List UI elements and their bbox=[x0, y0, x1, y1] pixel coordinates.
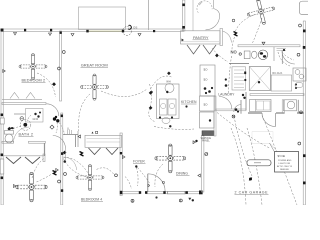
wall left outer bbox=[1, 29, 3, 205]
dining switch arc bbox=[155, 164, 163, 187]
great room east dashed curve bbox=[149, 84, 156, 122]
outlet bed3 bbox=[14, 185, 17, 188]
svg-text:PANEL: PANEL bbox=[202, 140, 210, 143]
corner post dining bbox=[199, 191, 203, 195]
wall foyer west stub bbox=[77, 131, 79, 147]
wall porch bump bbox=[79, 7, 126, 30]
svg-text:KITCHEN: KITCHEN bbox=[181, 100, 197, 104]
fan great room bbox=[81, 74, 109, 100]
closet bedroom4 bbox=[85, 135, 122, 147]
wall top outer bbox=[2, 29, 184, 31]
fan bedroom2 bbox=[19, 54, 47, 80]
window left wall b bbox=[0, 159, 4, 174]
tub bath2 bbox=[20, 117, 24, 121]
outlet right wall garage bbox=[298, 142, 301, 145]
triangle below OS bbox=[138, 34, 141, 37]
wall posts top bbox=[24, 29, 26, 32]
linen shelf hashes bbox=[68, 130, 72, 134]
bedroom3 door leaf bbox=[65, 149, 67, 161]
bedroom3 door arc bbox=[53, 136, 66, 149]
wall foyer west bbox=[120, 133, 122, 196]
fan bedroom3 bbox=[16, 172, 47, 201]
bath light dashed circle bbox=[20, 120, 31, 131]
wall kitchen thin partition bbox=[192, 0, 194, 31]
nook-kitchen dashed arcs right bbox=[282, 52, 294, 60]
upper cabinets dashes bbox=[277, 49, 287, 51]
svg-text:BEDROOM 2: BEDROOM 2 bbox=[22, 78, 46, 82]
garage ceiling outlet bbox=[249, 178, 252, 181]
mud switches bbox=[235, 108, 238, 111]
bedroom4 switch arcs bbox=[64, 157, 91, 176]
wall porch side line bbox=[148, 0, 150, 30]
svg-text:2 CAR GARAGE: 2 CAR GARAGE bbox=[235, 190, 269, 194]
WH circle bbox=[165, 84, 174, 93]
outlet triangle great room bbox=[78, 135, 81, 138]
switch arcs great room bbox=[79, 94, 90, 131]
lightning bedroom3 bbox=[53, 171, 57, 176]
closet line bedroom2 bbox=[2, 98, 42, 100]
outlet right top bbox=[299, 24, 302, 27]
lightning nook bbox=[234, 32, 238, 37]
toilet room bbox=[284, 100, 297, 111]
triangles below top wall bbox=[14, 33, 17, 36]
svg-text:$˧O⊕: $˧O⊕ bbox=[278, 154, 286, 158]
wall posts front wall bbox=[139, 191, 141, 194]
svg-text:OS: OS bbox=[133, 26, 137, 30]
bifold chevrons bedroom2 closet bbox=[10, 93, 35, 99]
wall posts left wall bbox=[1, 114, 4, 117]
svg-text:DINING: DINING bbox=[176, 172, 188, 176]
walk-in closet box bbox=[271, 75, 292, 91]
svg-text:W.I.CLO.: W.I.CLO. bbox=[272, 71, 283, 75]
wall masterbath north bbox=[229, 63, 249, 65]
sink rect bbox=[244, 51, 250, 59]
cooktop circle bbox=[258, 50, 268, 60]
note leader bbox=[270, 143, 275, 152]
foyer arcs bbox=[137, 168, 139, 187]
diamond above WH bbox=[167, 71, 171, 75]
master closets band bbox=[250, 100, 272, 112]
svg-text:GFCI: GFCI bbox=[33, 118, 39, 121]
note box attic bbox=[275, 152, 299, 173]
foyer glyphs top bbox=[162, 181, 164, 183]
svg-text:BATH 2: BATH 2 bbox=[19, 133, 34, 137]
dashed diag pantry-kitchen bbox=[212, 48, 228, 62]
laundry arc bbox=[151, 76, 172, 89]
fan bedroom4 bbox=[76, 165, 104, 191]
toilet master bbox=[295, 82, 303, 88]
svg-text:LIGHT FOR: LIGHT FOR bbox=[279, 163, 291, 165]
outlet foyer east triangle bbox=[123, 156, 126, 159]
wall post foyer wall bbox=[120, 152, 122, 154]
pantry2 shelves box bbox=[232, 67, 246, 90]
wall bedroom2 east bbox=[60, 31, 62, 101]
bifold chevrons bedroom4 closet bbox=[89, 148, 119, 155]
garage door opener capsule bbox=[247, 160, 271, 166]
svg-text:NEEDED: NEEDED bbox=[280, 169, 290, 171]
smoke detector circle top wall bbox=[123, 27, 132, 36]
wall kitchen north vertical bbox=[183, 0, 185, 31]
wall dining east / garage west bbox=[201, 136, 204, 193]
wall posts right wall bbox=[303, 30, 306, 33]
sink oval bbox=[251, 51, 257, 58]
svg-text:NO: NO bbox=[231, 50, 238, 55]
fan nook bbox=[244, 0, 278, 28]
outlet dining triangle bbox=[198, 174, 201, 177]
mud hall wall vertical bbox=[240, 100, 242, 114]
glyph D dining bbox=[205, 153, 208, 156]
bifold chevrons pantry bbox=[187, 45, 216, 54]
wall hall/bedrooms east bbox=[61, 113, 63, 205]
svg-text:POWER AND: POWER AND bbox=[278, 159, 292, 162]
nook fan arcs bbox=[236, 15, 256, 32]
diamond on arc bbox=[52, 82, 56, 86]
wall kitchen east bbox=[214, 96, 216, 136]
vanity master bbox=[293, 68, 306, 81]
wall bath2 south bbox=[2, 141, 14, 143]
fan dining bbox=[155, 144, 186, 173]
svg-text:GREAT ROOM: GREAT ROOM bbox=[81, 63, 108, 68]
svg-text:$O: $O bbox=[204, 68, 209, 72]
vent symbol bath2 bbox=[9, 127, 12, 130]
bedroom4 door arc bbox=[64, 157, 77, 170]
hall symbol bbox=[50, 125, 54, 129]
wall stub closet right bbox=[43, 154, 45, 162]
kitchen door arcs top bbox=[197, 1, 212, 13]
svg-text:FOYER: FOYER bbox=[133, 160, 145, 164]
master door leaf + arc bbox=[275, 113, 277, 127]
closet line bedroom3 bbox=[2, 155, 44, 157]
bedroom2 door arc bbox=[47, 104, 59, 116]
front door arc bbox=[148, 174, 165, 191]
switch arcs bedroom2 bbox=[37, 73, 56, 97]
laundry room bbox=[157, 84, 180, 119]
nook door arc bbox=[282, 51, 295, 65]
wall posts vertical B bbox=[182, 4, 185, 7]
hall switch cluster SO bbox=[53, 117, 56, 120]
symbols above closet bbox=[92, 132, 94, 134]
outlets hall wall bbox=[58, 180, 61, 183]
rounded corner top right bbox=[299, 1, 308, 14]
kitchen dashed horizontal bbox=[154, 127, 194, 130]
svg-text:$O: $O bbox=[204, 103, 209, 107]
porch lights bbox=[131, 199, 134, 202]
outlet master wall bbox=[300, 111, 303, 114]
triangle vent bbox=[262, 42, 265, 44]
garage dashed sweeps bbox=[217, 113, 270, 149]
shower box with X bbox=[249, 67, 270, 91]
bath2 fan blob bbox=[8, 128, 11, 131]
bath2 fixtures bbox=[26, 109, 44, 123]
toilet bath2 bbox=[5, 131, 14, 135]
svg-text:LAUNDRY: LAUNDRY bbox=[218, 92, 235, 96]
svg-text:$O: $O bbox=[204, 78, 209, 82]
wall master north segs bbox=[248, 112, 262, 114]
pantry box bbox=[181, 31, 221, 44]
wall master band south bbox=[250, 94, 304, 96]
window front wall bbox=[168, 191, 186, 194]
window left wall a bbox=[0, 118, 4, 124]
svg-text:BEDROOM 4: BEDROOM 4 bbox=[81, 198, 102, 202]
outlets bedroom2 bbox=[62, 51, 65, 54]
service panel bbox=[202, 131, 214, 136]
wall right outer bbox=[303, 21, 305, 205]
wall posts hall wall bbox=[61, 115, 63, 118]
bifold chevrons bedroom3 closet bbox=[6, 157, 40, 164]
wall linen east bbox=[75, 135, 77, 148]
kitchen island column bbox=[200, 65, 215, 96]
island blobs bbox=[204, 87, 207, 90]
wall bedroom2 south bbox=[2, 103, 46, 105]
laundry door arc bbox=[219, 96, 232, 109]
svg-text:ATTIC ONLY IF: ATTIC ONLY IF bbox=[277, 165, 293, 168]
counter end line bbox=[273, 47, 275, 61]
wall front (south) foyer-dining bbox=[121, 192, 140, 194]
faint bed lines master bbox=[252, 132, 276, 151]
wall nook/kitchen counter north bbox=[238, 45, 300, 47]
wire highlighted circuit bbox=[88, 30, 123, 32]
wall laundry south bbox=[216, 109, 246, 111]
door leaf front bbox=[147, 174, 149, 192]
bedroom3 switch arcs bbox=[32, 158, 45, 178]
outlet kitchen right bbox=[297, 53, 300, 56]
wall hall linen south bbox=[63, 134, 78, 136]
lightning bedroom4 bbox=[80, 152, 84, 157]
svg-text:WH: WH bbox=[166, 80, 170, 84]
svg-text:PANTRY: PANTRY bbox=[193, 35, 209, 40]
